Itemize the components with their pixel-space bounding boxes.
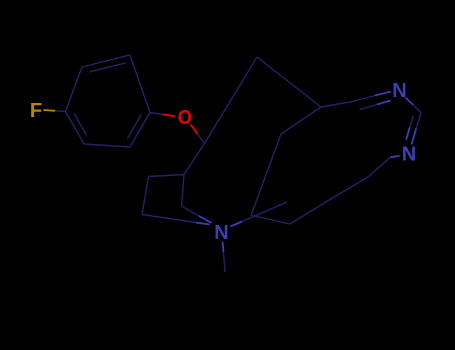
bond Cb-Cc (bridge) — [182, 175, 185, 207]
double bond C2=N3 main (blue half) — [412, 129, 417, 145]
bond N1-C2 (navy half) — [413, 105, 421, 113]
bond N-Cd (navy half) — [242, 202, 287, 222]
bond N-methyl (blue half) — [223, 242, 224, 253]
svg-text:O: O — [178, 107, 192, 129]
bond N1-C2 (blue half) — [406, 98, 414, 106]
benzene inner double bond left — [74, 114, 87, 136]
bond O-Ca (red half) — [191, 125, 198, 134]
bond F-C1 (navy half) — [55, 110, 66, 113]
bond Cb-Cx — [149, 175, 185, 177]
double bond C8a=N1 inner (navy half) — [360, 105, 378, 110]
double bond C8a=N1 main (blue half) — [375, 92, 391, 96]
bond F-C1 (gold half) — [44, 109, 56, 112]
bond Jtop-Vr — [281, 107, 321, 134]
bond Cc-N (blue half) — [199, 216, 212, 223]
double bond C8a=N1 inner (blue half) — [377, 101, 391, 105]
bond q2-q3 — [290, 200, 330, 225]
bond C4-O (red half) — [163, 114, 175, 116]
benzene edge C1-C2 — [66, 67, 83, 112]
bond Cy-N long (blue part) — [196, 223, 210, 225]
benzene edge C3-C4 — [130, 55, 150, 113]
bond O-Ca (navy half) — [198, 134, 205, 144]
benzene edge C5-C6 — [84, 144, 130, 147]
double bond C2=N3 inner (navy half) — [410, 116, 414, 128]
svg-text:N: N — [402, 144, 416, 166]
bond q1-q2 — [330, 177, 368, 200]
double bond C8a=N1 main (navy half) — [353, 96, 376, 102]
bond Cx-Cy — [142, 177, 149, 215]
svg-text:N: N — [214, 222, 228, 244]
bond N3-q1 (blue half) — [390, 156, 400, 158]
bond Ca-Cb — [184, 144, 205, 175]
bond N-methyl (navy half) — [224, 252, 226, 272]
bond N3-q1 (navy half) — [368, 158, 390, 178]
double bond C2=N3 main (navy half) — [416, 113, 421, 129]
bond N-Cd (blue half) — [231, 222, 243, 227]
bond Ca-apex (long) — [205, 57, 258, 144]
bond C4-O (navy half) — [150, 113, 163, 115]
bond Cd-Jtop (long steep) — [251, 134, 281, 216]
benzene edge C2-C3 — [82, 55, 130, 67]
benzene inner double bond top — [89, 63, 125, 72]
bond Cc-N (navy half) — [182, 206, 200, 216]
bond apex-Vr (long) — [257, 57, 321, 107]
bond Vr-C8a — [321, 102, 353, 108]
svg-text:N: N — [392, 80, 406, 102]
benzene edge C4-C5 — [130, 113, 150, 148]
double bond C2=N3 inner (blue half) — [406, 128, 410, 140]
bond q3-Cd — [252, 216, 290, 225]
bond Cy-N long (navy part) — [142, 215, 196, 223]
svg-text:F: F — [30, 100, 42, 122]
benzene edge C6-C1 — [66, 112, 85, 145]
benzene inner double bond right — [127, 114, 141, 138]
